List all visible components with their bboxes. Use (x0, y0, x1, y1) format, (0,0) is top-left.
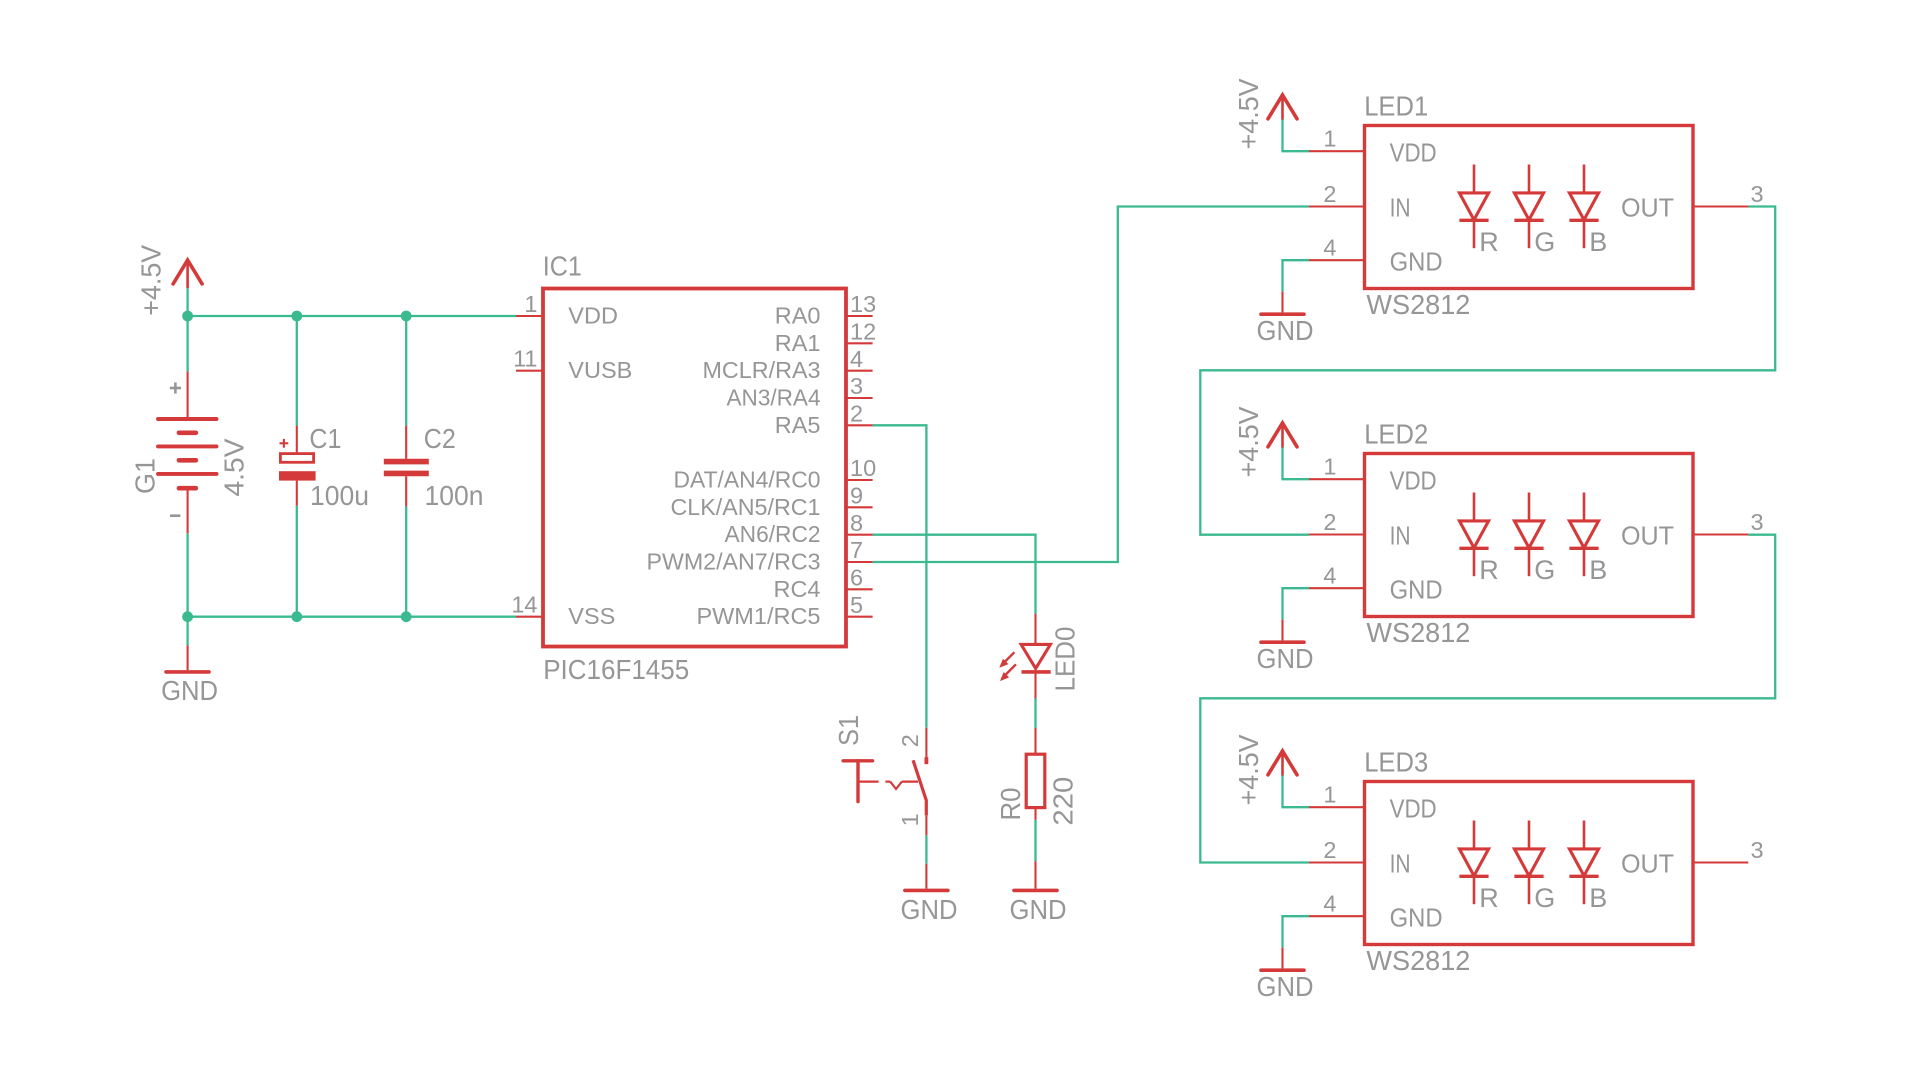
pin 6 (RC4) of IC1 (773, 565, 872, 602)
svg-text:+4.5V: +4.5V (1233, 734, 1264, 805)
pin 1 (VDD) of LED3 (1309, 782, 1437, 824)
svg-text:RC4: RC4 (773, 576, 820, 602)
svg-text:100n: 100n (425, 480, 484, 511)
svg-text:4: 4 (1323, 235, 1336, 261)
wire +4.5V top rail (188, 315, 516, 317)
svg-text:GND: GND (1390, 904, 1443, 932)
svg-text:R: R (1479, 883, 1499, 913)
svg-text:2: 2 (1323, 509, 1336, 535)
pin 4 (MCLR/RA3) of IC1 (703, 346, 873, 383)
svg-text:OUT: OUT (1621, 195, 1674, 223)
svg-text:OUT: OUT (1621, 523, 1674, 551)
wire C1 bottom (296, 506, 298, 617)
svg-text:1: 1 (897, 813, 923, 826)
svg-text:G1: G1 (129, 458, 160, 494)
svg-text:R: R (1479, 555, 1499, 585)
svg-text:9: 9 (850, 483, 863, 509)
pin 10 (DAT/AN4/RC0) of IC1 (674, 455, 877, 492)
pin 11 (VUSB) of IC1 (513, 346, 632, 384)
junction node at 406.2,616.7 (401, 611, 412, 622)
svg-text:VDD: VDD (1390, 139, 1437, 167)
svg-text:14: 14 (511, 592, 537, 618)
svg-text:IN: IN (1390, 195, 1411, 223)
svg-text:3: 3 (1751, 181, 1764, 207)
switch S1 (843, 728, 926, 836)
wire AN6/RC2 (pin8) to LED0 (873, 535, 1036, 614)
power +4.5V (LED1) (1268, 95, 1297, 120)
pin 4 (GND) of LED2 (1309, 563, 1443, 605)
svg-text:RA0: RA0 (775, 303, 821, 329)
wire RA5 (pin2) to S1 (873, 425, 927, 728)
LED LED0 (999, 614, 1050, 699)
svg-text:+4.5V: +4.5V (135, 244, 166, 315)
wire PWM2/AN7/RC3 (pin7) to LED1 IN (873, 207, 1309, 563)
pin 3 (OUT) of LED2 (1621, 509, 1764, 551)
ground GND (R0) (1014, 861, 1057, 890)
svg-text:PWM1/RC5: PWM1/RC5 (696, 603, 820, 629)
svg-text:B: B (1589, 555, 1607, 585)
svg-text:IN: IN (1390, 851, 1411, 879)
svg-text:GND: GND (1257, 643, 1314, 674)
pin 9 (CLK/AN5/RC1) of IC1 (671, 483, 873, 520)
pin 3 (AN3/RA4) of IC1 (727, 373, 873, 410)
capacitor C2 (384, 426, 429, 507)
wire C2 bottom (405, 506, 407, 616)
svg-text:LED2: LED2 (1364, 419, 1428, 450)
pin 3 (OUT) of LED3 (1621, 837, 1764, 879)
pin 1 (VDD) of LED1 (1309, 126, 1437, 168)
svg-text:2: 2 (1323, 181, 1336, 207)
svg-text:100u: 100u (310, 480, 369, 511)
LED2 internal diode B (1569, 493, 1607, 585)
pin 4 (GND) of LED1 (1309, 235, 1443, 277)
wire LED2 OUT to LED3 IN (1200, 535, 1775, 863)
svg-text:DAT/AN4/RC0: DAT/AN4/RC0 (674, 467, 821, 493)
svg-text:8: 8 (850, 510, 863, 536)
pin 2 (IN) of LED3 (1309, 837, 1411, 879)
svg-text:GND: GND (1010, 894, 1067, 925)
wire GND bottom rail (188, 616, 516, 618)
wire +4.5V to LED3 VDD (1283, 776, 1310, 808)
svg-text:1: 1 (1323, 454, 1336, 480)
wire battery + to rail (186, 288, 188, 371)
svg-text:4.5V: 4.5V (219, 438, 250, 496)
svg-text:1: 1 (524, 291, 537, 317)
power +4.5V (LED3) (1268, 751, 1297, 776)
WS2812 LED1 body (1365, 126, 1694, 289)
wire C2 top (405, 316, 407, 426)
LED2 internal diode R (1459, 493, 1498, 585)
svg-text:VSS: VSS (568, 603, 615, 629)
LED1 internal diode G (1514, 165, 1555, 257)
pin 12 (RA1) of IC1 (775, 319, 876, 356)
svg-text:B: B (1589, 883, 1607, 913)
svg-text:GND: GND (1257, 315, 1314, 346)
LED1 internal diode R (1459, 165, 1498, 257)
svg-text:R0: R0 (995, 788, 1026, 821)
svg-text:C1: C1 (309, 423, 341, 454)
svg-text:1: 1 (1323, 782, 1336, 808)
svg-text:S1: S1 (833, 715, 864, 746)
power +4.5V (battery) (173, 260, 202, 288)
junction node at 296.8,616.7 (291, 611, 302, 622)
svg-text:2: 2 (850, 401, 863, 427)
ground GND (LED1) (1261, 291, 1304, 314)
wire +4.5V to LED2 VDD (1283, 448, 1310, 480)
junction node at 187.6,616.7 (182, 611, 193, 622)
wire LED1 OUT to LED2 IN (1200, 207, 1775, 535)
svg-text:7: 7 (850, 537, 863, 563)
pin 1 (VDD) of IC1 (516, 291, 618, 329)
svg-text:CLK/AN5/RC1: CLK/AN5/RC1 (671, 494, 821, 520)
svg-text:OUT: OUT (1621, 851, 1674, 879)
svg-text:4: 4 (850, 346, 863, 372)
svg-text:GND: GND (1257, 971, 1314, 1002)
svg-text:4: 4 (1323, 891, 1336, 917)
wire R0 to GND (1034, 820, 1036, 861)
LED3 internal diode G (1514, 821, 1555, 913)
pin 4 (GND) of LED3 (1309, 891, 1443, 933)
svg-text:2: 2 (1323, 837, 1336, 863)
svg-text:IC1: IC1 (543, 251, 582, 282)
pin 2 (RA5) of IC1 (775, 401, 873, 438)
wire +4.5V to LED1 VDD (1283, 120, 1310, 152)
svg-text:GND: GND (1390, 576, 1443, 604)
svg-text:IN: IN (1390, 523, 1411, 551)
WS2812 LED2 body (1365, 454, 1694, 617)
pin 13 (RA0) of IC1 (775, 291, 876, 328)
svg-text:5: 5 (850, 592, 863, 618)
LED3 internal diode B (1569, 821, 1607, 913)
ground GND (battery) (166, 645, 209, 672)
svg-text:AN6/RC2: AN6/RC2 (725, 521, 821, 547)
svg-text:220: 220 (1047, 777, 1078, 826)
pin 7 (PWM2/AN7/RC3) of IC1 (647, 537, 873, 574)
svg-text:2: 2 (897, 734, 923, 747)
power +4.5V (LED2) (1268, 423, 1297, 448)
svg-text:10: 10 (850, 455, 876, 481)
svg-text:VDD: VDD (1390, 795, 1437, 823)
pin 3 (OUT) of LED1 (1621, 181, 1764, 223)
svg-text:12: 12 (850, 319, 876, 345)
svg-text:C2: C2 (424, 423, 456, 454)
svg-text:RA5: RA5 (775, 412, 821, 438)
svg-text:+4.5V: +4.5V (1233, 78, 1264, 149)
wire LED0 to R0 (1034, 698, 1036, 728)
pin 14 (VSS) of IC1 (511, 592, 615, 630)
svg-text:RA1: RA1 (775, 330, 821, 356)
battery G1 (158, 371, 217, 533)
wire C1 top (296, 316, 298, 426)
svg-text:4: 4 (1323, 563, 1336, 589)
svg-text:WS2812: WS2812 (1366, 945, 1470, 976)
svg-text:AN3/RA4: AN3/RA4 (727, 385, 821, 411)
pin 1 (VDD) of LED2 (1309, 454, 1437, 496)
pin 8 (AN6/RC2) of IC1 (725, 510, 873, 547)
svg-text:G: G (1534, 555, 1555, 585)
svg-text:WS2812: WS2812 (1366, 289, 1470, 320)
wire battery - to rail / gnd (186, 533, 188, 645)
svg-text:1: 1 (1323, 126, 1336, 152)
svg-text:LED3: LED3 (1364, 747, 1428, 778)
svg-text:13: 13 (850, 291, 876, 317)
resistor R0 (1026, 728, 1045, 820)
junction node at 296.8,316 (291, 311, 302, 322)
pin 5 (PWM1/RC5) of IC1 (696, 592, 872, 629)
WS2812 LED3 body (1365, 782, 1694, 945)
pin 2 (IN) of LED2 (1309, 509, 1411, 551)
svg-text:VUSB: VUSB (568, 357, 632, 383)
svg-text:3: 3 (1751, 509, 1764, 535)
svg-text:R: R (1479, 227, 1499, 257)
svg-text:G: G (1534, 883, 1555, 913)
svg-text:LED0: LED0 (1050, 627, 1081, 692)
ground GND (LED3) (1261, 947, 1304, 970)
wire LED2 GND pin to ground (1283, 588, 1310, 619)
junction node at 187.6,316 (182, 311, 193, 322)
svg-text:3: 3 (1751, 837, 1764, 863)
svg-text:VDD: VDD (1390, 467, 1437, 495)
wire S1 to GND (925, 835, 927, 864)
LED3 internal diode R (1459, 821, 1498, 913)
svg-text:PWM2/AN7/RC3: PWM2/AN7/RC3 (647, 549, 821, 575)
svg-text:3: 3 (850, 373, 863, 399)
svg-text:LED1: LED1 (1364, 91, 1428, 122)
wire LED1 GND pin to ground (1283, 260, 1310, 291)
svg-text:GND: GND (161, 675, 218, 706)
LED1 internal diode B (1569, 165, 1607, 257)
LED2 internal diode G (1514, 493, 1555, 585)
svg-text:6: 6 (850, 565, 863, 591)
junction node at 406.2,316 (401, 311, 412, 322)
wire LED3 GND pin to ground (1283, 916, 1310, 947)
svg-text:VDD: VDD (568, 303, 618, 329)
pin 2 (IN) of LED1 (1309, 181, 1411, 223)
IC U1 IC1 PIC16F1455 body (543, 289, 846, 647)
svg-text:+4.5V: +4.5V (1233, 406, 1264, 477)
svg-text:G: G (1534, 227, 1555, 257)
svg-text:PIC16F1455: PIC16F1455 (543, 654, 689, 685)
svg-text:GND: GND (901, 894, 958, 925)
capacitor C1 (279, 426, 316, 506)
svg-text:B: B (1589, 227, 1607, 257)
ground GND (LED2) (1261, 619, 1304, 642)
ground GND (S1) (905, 864, 948, 891)
svg-text:11: 11 (513, 346, 537, 372)
svg-text:MCLR/RA3: MCLR/RA3 (703, 357, 821, 383)
svg-text:GND: GND (1390, 248, 1443, 276)
svg-text:WS2812: WS2812 (1366, 617, 1470, 648)
